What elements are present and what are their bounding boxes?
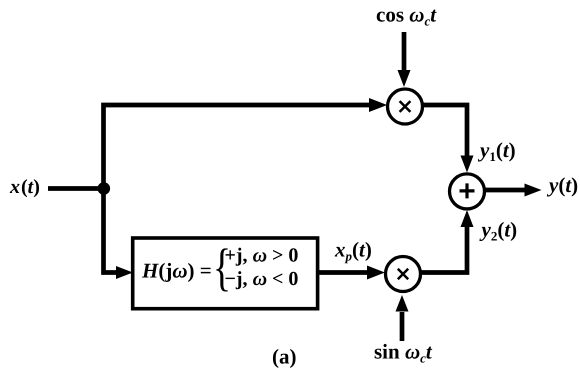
- svg-text:cos ωct: cos ωct: [376, 3, 437, 29]
- svg-text:(t): (t): [21, 176, 40, 198]
- svg-text:xp(t): xp(t): [334, 238, 372, 264]
- svg-text:x: x: [9, 176, 20, 198]
- svg-text:H(jω) =: H(jω) =: [141, 259, 212, 283]
- svg-text:−j, ω < 0: −j, ω < 0: [225, 268, 299, 290]
- svg-text:sin ωct: sin ωct: [374, 340, 433, 366]
- svg-text:y2(t): y2(t): [479, 218, 518, 244]
- svg-text:+j, ω > 0: +j, ω > 0: [225, 245, 299, 267]
- svg-text:(a): (a): [272, 345, 297, 369]
- svg-text:y1(t): y1(t): [477, 138, 516, 164]
- svg-text:y(t): y(t): [546, 173, 578, 197]
